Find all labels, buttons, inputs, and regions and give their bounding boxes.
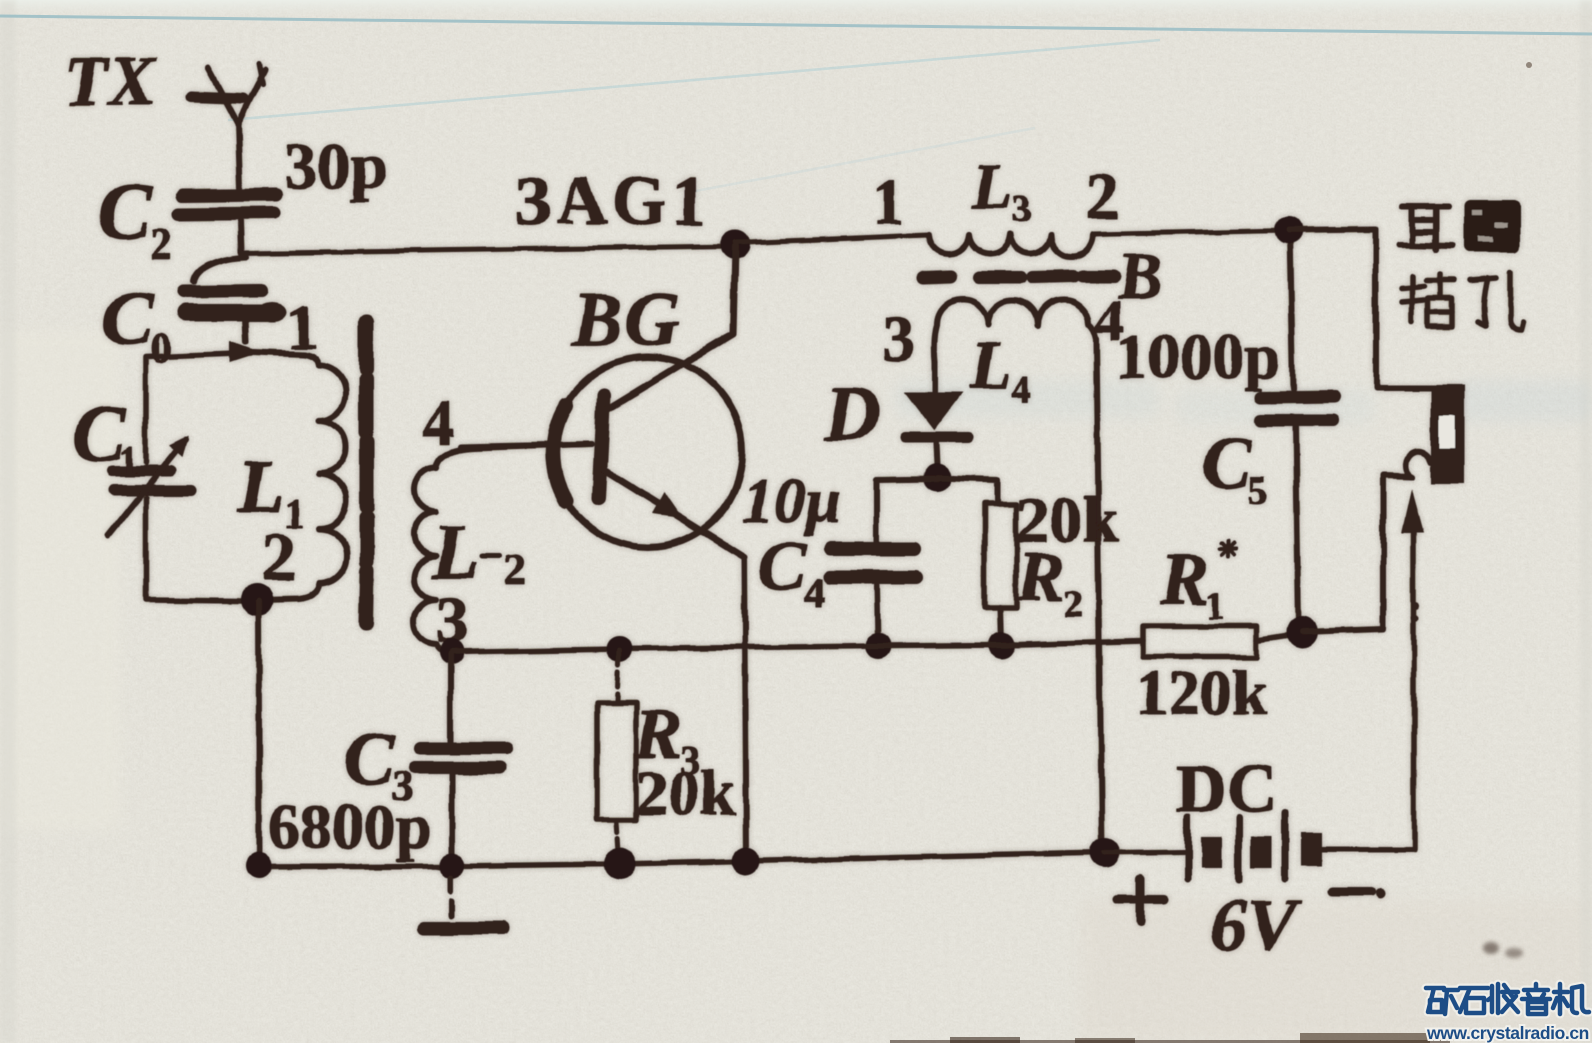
antenna symbol <box>190 63 265 188</box>
svg-text:3: 3 <box>1012 189 1031 231</box>
inductor L4 label <box>969 327 1031 411</box>
svg-text:TX: TX <box>64 43 158 120</box>
wire tank bottom <box>146 498 242 601</box>
svg-text:C: C <box>1202 423 1253 505</box>
resistor R2 <box>937 478 1017 643</box>
node 3 junction <box>439 639 465 665</box>
label pin 4 (L2) <box>422 387 454 458</box>
resistor R2 label <box>1017 539 1083 625</box>
inductor L2 label <box>431 508 526 595</box>
diode D <box>905 362 968 466</box>
wire tank top <box>146 353 251 463</box>
svg-text:1000p: 1000p <box>1116 321 1280 392</box>
scan fold line (cyan horizontal) <box>0 16 1592 34</box>
label pin 3 (L4) <box>882 302 915 375</box>
svg-text:C: C <box>344 717 396 801</box>
battery DC 6V <box>1105 813 1414 880</box>
wire top rail to L3 <box>735 235 928 243</box>
capacitor C5 label <box>1202 423 1268 513</box>
svg-text:6V: 6V <box>1210 885 1302 967</box>
label pin 3 (L2) <box>436 584 469 657</box>
capacitor C0 label <box>102 277 171 372</box>
resistor R2 value 20k <box>1016 484 1119 557</box>
label pin 1 (L3) <box>872 166 905 239</box>
svg-text:DC: DC <box>1176 751 1277 828</box>
label earphone jack (ear-plug socket) row 1 <box>1400 207 1452 250</box>
capacitor C2 <box>179 195 276 252</box>
svg-text:L: L <box>969 327 1012 403</box>
node top right junction <box>1275 216 1303 244</box>
resistor R1 <box>1143 626 1302 657</box>
wire node2 to bottom rail <box>258 601 259 866</box>
wire jack top feed <box>1289 229 1452 388</box>
capacitor C3 value 6800p <box>268 791 432 862</box>
svg-text:C: C <box>758 526 807 606</box>
svg-text:0: 0 <box>150 326 171 372</box>
label pin 4 (L4) <box>1094 288 1124 354</box>
resistor R3 <box>597 651 636 852</box>
svg-text:4: 4 <box>804 570 824 615</box>
battery 6V value <box>1210 885 1302 967</box>
svg-text:30p: 30p <box>284 130 387 203</box>
svg-text:2: 2 <box>1086 160 1119 233</box>
ghost print band <box>895 380 1592 424</box>
label pin 1 (L1) <box>286 291 318 362</box>
svg-text:4: 4 <box>1012 369 1031 411</box>
svg-text:D: D <box>823 370 880 457</box>
variable capacitor C1 <box>108 435 191 536</box>
capacitor C3 <box>415 654 506 856</box>
svg-text:www.crystalradio.cn: www.crystalradio.cn <box>1426 1023 1589 1043</box>
svg-text:C: C <box>102 277 154 361</box>
node 1 arrow <box>230 341 261 362</box>
resistor R3 value 20k <box>636 757 736 828</box>
bottom edge cut-off print <box>890 62 1532 1043</box>
svg-text:1: 1 <box>118 438 138 483</box>
svg-text:1: 1 <box>872 166 905 239</box>
resistor R1 label with star <box>1159 539 1236 627</box>
transistor BG <box>460 247 744 557</box>
scan diagonal streak <box>228 40 1160 120</box>
wire emitter down <box>744 557 746 860</box>
svg-text:L: L <box>431 508 480 595</box>
node collector junction <box>720 230 750 260</box>
node C5 bottom junction <box>1286 616 1318 648</box>
capacitor C4 label <box>758 526 824 615</box>
transformer core L1-L2 (dashed) <box>366 322 367 624</box>
svg-text:20k: 20k <box>636 757 736 828</box>
plug tip arrow <box>1402 489 1424 849</box>
label earphone jack row 2 char 2 <box>1470 272 1524 330</box>
svg-text:5: 5 <box>1248 468 1268 513</box>
capacitor C2 label <box>98 168 172 268</box>
inductor L1 label <box>237 445 305 538</box>
resistor R1 value 120k <box>1136 657 1268 728</box>
label 3AG1 <box>514 163 711 240</box>
svg-text:2: 2 <box>504 545 526 594</box>
capacitor C4 <box>829 479 937 645</box>
capacitor C4 value 10u <box>742 465 842 536</box>
svg-text:120k: 120k <box>1136 657 1268 728</box>
wire bottom rail <box>259 853 1105 867</box>
node R2 bottom <box>988 632 1014 658</box>
svg-text:4: 4 <box>422 387 454 458</box>
capacitor C5 value 1000p <box>1116 321 1280 392</box>
node 2 junction <box>241 584 273 616</box>
svg-text:L: L <box>971 150 1012 223</box>
label earphone jack char 2 (smudged) <box>1464 200 1520 252</box>
svg-text:R: R <box>1017 539 1065 616</box>
node C3 bottom <box>439 853 465 879</box>
watermark url <box>1426 1023 1589 1043</box>
wire jack lower contact to R1 node <box>1302 476 1412 632</box>
wire top rail left <box>241 246 735 253</box>
battery minus sign <box>1332 889 1386 899</box>
capacitor C5 <box>1261 230 1336 626</box>
capacitor C3 label <box>344 717 413 810</box>
label pin 2 (L1) <box>262 519 296 595</box>
inductor L2 <box>414 444 590 652</box>
resistor R3 label <box>633 694 700 783</box>
node C4 bottom <box>865 633 891 659</box>
capacitor C2 value 30p <box>284 130 387 203</box>
svg-text:L: L <box>237 445 284 529</box>
capacitor C0 <box>184 257 287 342</box>
svg-text:C: C <box>98 168 153 256</box>
node below diode <box>923 464 951 492</box>
ground <box>423 878 503 928</box>
diode D label <box>823 370 880 457</box>
faint diagonal streak 2 <box>690 128 1035 192</box>
node bottom left corner <box>246 853 272 879</box>
wire L4 pin4 down <box>1096 340 1102 852</box>
battery DC label <box>1176 751 1277 828</box>
node battery plus <box>1090 838 1120 868</box>
svg-text:3: 3 <box>882 302 915 375</box>
inductor L4 <box>934 300 1096 363</box>
svg-text:2: 2 <box>150 219 172 268</box>
svg-text:6800p: 6800p <box>268 791 432 862</box>
inductor L3 <box>928 235 1093 256</box>
svg-text:ЗAG1: ЗAG1 <box>514 163 711 240</box>
node R3 top <box>606 636 632 662</box>
inductor L1 <box>253 352 347 600</box>
battery plus sign <box>1118 878 1164 922</box>
transformer core B (dashed) <box>923 276 1115 278</box>
node emitter bottom <box>732 847 760 875</box>
svg-text:R: R <box>1159 539 1209 621</box>
watermark logo 矿石收音机 <box>1426 984 1589 1014</box>
transformer B label <box>1117 240 1162 313</box>
earphone jack <box>1405 385 1464 484</box>
transistor BG label <box>571 278 682 362</box>
label pin 2 (L3) <box>1086 160 1119 233</box>
capacitor C1 label <box>72 390 138 483</box>
svg-text:1: 1 <box>1206 585 1225 627</box>
svg-text:2: 2 <box>1064 583 1083 625</box>
wire top rail right <box>1093 230 1289 234</box>
svg-text:BG: BG <box>571 278 682 362</box>
svg-text:2: 2 <box>262 519 296 595</box>
wire mid rail <box>452 641 1143 652</box>
node R3 bottom <box>604 848 636 880</box>
label earphone jack row 2 char 1 <box>1402 274 1454 326</box>
inductor L3 label <box>971 150 1031 231</box>
antenna TX label <box>64 43 158 120</box>
